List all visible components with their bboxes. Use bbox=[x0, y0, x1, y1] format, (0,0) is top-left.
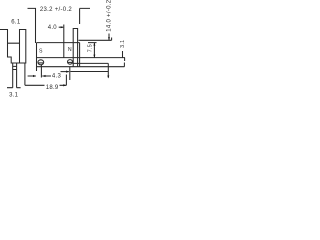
svg-text:4.0: 4.0 bbox=[48, 25, 58, 31]
svg-text:3.1: 3.1 bbox=[120, 40, 126, 48]
front view left pin bbox=[40, 65, 42, 78]
internal divider bbox=[63, 25, 65, 58]
front view box bbox=[37, 43, 126, 71]
front view right pin bbox=[69, 67, 71, 80]
svg-text:14.0 +/-0.2: 14.0 +/-0.2 bbox=[106, 0, 112, 32]
svg-text:7.5: 7.5 bbox=[87, 44, 93, 52]
svg-text:18.9: 18.9 bbox=[46, 85, 59, 91]
terminal circle 1 bbox=[38, 60, 44, 65]
dimension 7.5 (rotated) bbox=[87, 43, 96, 58]
dimension 18.9 bbox=[25, 64, 67, 92]
svg-text:6.1: 6.1 bbox=[11, 19, 21, 25]
svg-text:4.3: 4.3 bbox=[52, 74, 62, 80]
svg-text:3.1: 3.1 bbox=[9, 93, 19, 99]
left view pin bbox=[13, 63, 17, 88]
dimension 3.1 bottom-left bbox=[7, 88, 21, 99]
dimension 14.0 +/-0.2 (rotated) bbox=[79, 0, 113, 40]
terminal circle 2 bbox=[68, 60, 73, 65]
svg-text:N: N bbox=[68, 47, 72, 53]
svg-text:S: S bbox=[39, 48, 43, 54]
dimension 4.3 bbox=[28, 71, 70, 80]
left view outline bbox=[0, 30, 26, 64]
dimension 23.2 +/-0.2 bbox=[28, 7, 91, 43]
svg-text:23.2 +/-0.2: 23.2 +/-0.2 bbox=[40, 7, 73, 13]
terminal centre leader bbox=[70, 63, 109, 78]
tower on box top bbox=[73, 29, 77, 67]
dimension 3.1 right (rotated) bbox=[120, 40, 126, 67]
dimension 4.0 bbox=[48, 25, 64, 31]
